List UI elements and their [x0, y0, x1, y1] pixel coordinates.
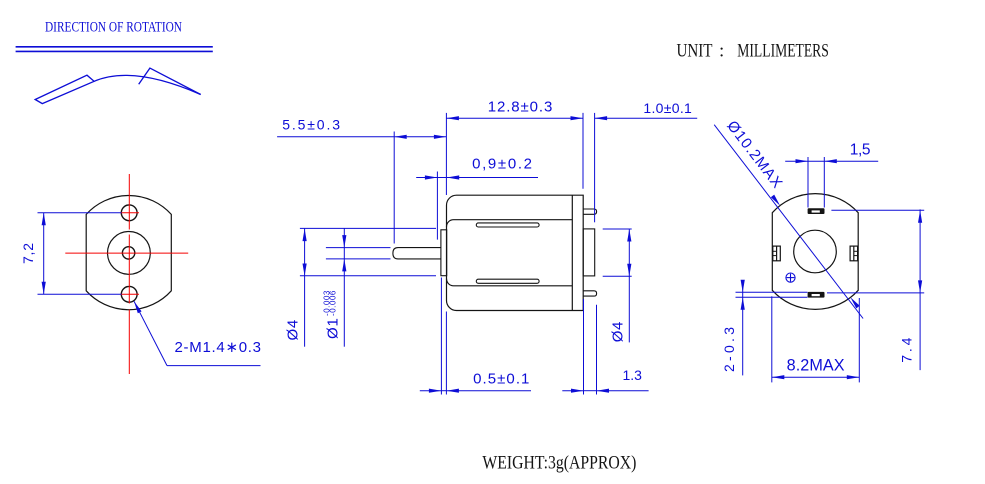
rotation direction curved double arrow — [35, 68, 201, 104]
svg-text:12.8±0.3: 12.8±0.3 — [488, 98, 553, 115]
front view horizontal centerline (red) — [65, 252, 188, 254]
dimension 1.3 (pin length) — [562, 299, 648, 395]
svg-text:UNIT: UNIT — [677, 40, 713, 61]
dimension Ø4 (cap diameter, right) — [603, 229, 632, 342]
svg-text:Ø4: Ø4 — [610, 322, 627, 343]
svg-text:7.4: 7.4 — [899, 337, 915, 362]
dimension 1.0±0.1 (cap protrusion) — [595, 100, 698, 222]
dimension 8.2MAX (body width) — [772, 296, 860, 382]
front view bottom mounting hole — [121, 286, 137, 302]
svg-text:2-0.3: 2-0.3 — [721, 327, 737, 372]
leader 2-M1.4*0.3 (tapped holes) — [134, 301, 261, 365]
rear view bottom terminal — [808, 292, 825, 298]
side view rear cap — [583, 229, 595, 276]
dimension 1,5 (terminal width) — [785, 142, 878, 208]
front view vertical centerline (red) — [128, 174, 130, 374]
front view shaft circle — [122, 247, 134, 259]
svg-text::: : — [719, 40, 724, 61]
svg-text:DIRECTION OF ROTATION: DIRECTION OF ROTATION — [45, 20, 182, 36]
dimension Ø1 -0.003/-0.006 (shaft diameter) — [323, 228, 391, 347]
rear view top terminal — [808, 208, 825, 214]
svg-text:7,2: 7,2 — [20, 243, 36, 264]
front view motor body outline — [86, 195, 171, 309]
title double underline — [16, 47, 213, 52]
front view top mounting hole — [121, 205, 137, 221]
dimension Ø4 (boss diameter, left) — [285, 228, 437, 346]
dimension 0.5±0.1 (boss width) — [420, 278, 531, 395]
rear view left side tab — [773, 246, 781, 261]
dimension 7,2 (hole spacing) — [20, 213, 121, 294]
side view bottom terminal pin — [583, 291, 596, 296]
side view bottom vent slot — [476, 279, 539, 283]
dimension Ø10.2MAX (diagonal leader) — [714, 118, 863, 319]
front view bearing boss circle — [107, 232, 150, 275]
svg-text:1.0±0.1: 1.0±0.1 — [643, 100, 692, 116]
svg-text:0.5±0.1: 0.5±0.1 — [473, 370, 529, 387]
note: UNIT MILLIMETERS — [677, 40, 829, 61]
svg-text:Ø4: Ø4 — [285, 320, 302, 341]
dimension 5.5±0.3 (shaft length) — [277, 117, 446, 244]
side view end cap joint line — [571, 195, 573, 310]
svg-text:2-M1.4∗0.3: 2-M1.4∗0.3 — [175, 339, 262, 356]
svg-text:MILLIMETERS: MILLIMETERS — [737, 40, 829, 61]
rear view motor body outline — [772, 194, 858, 310]
dimension 12.8±0.3 (body length) — [446, 98, 583, 195]
svg-text:WEIGHT:3g(APPROX): WEIGHT:3g(APPROX) — [482, 453, 636, 473]
svg-text:1,5: 1,5 — [850, 142, 871, 159]
title: DIRECTION OF ROTATION — [45, 20, 182, 36]
side view top vent slot — [476, 223, 539, 227]
note: WEIGHT 3g APPROX — [482, 453, 636, 473]
dimension 2-0.3 (terminal thickness) — [721, 280, 808, 376]
svg-text:Ø1: Ø1 — [325, 318, 342, 339]
svg-text:-0.006: -0.006 — [329, 290, 338, 316]
svg-text:1.3: 1.3 — [623, 367, 643, 383]
svg-text:8.2MAX: 8.2MAX — [787, 356, 845, 374]
side view shaft — [393, 248, 441, 259]
rear view commutator opening circle — [794, 230, 837, 273]
side view middle band — [447, 220, 573, 286]
red tick at bottom hole — [121, 293, 140, 295]
svg-text:5.5±0.3: 5.5±0.3 — [282, 117, 340, 133]
side view bearing boss — [441, 230, 447, 276]
side view top terminal pin — [583, 209, 596, 214]
dimension 7.4 (right) — [827, 209, 924, 370]
rear view right side tab — [850, 246, 858, 261]
dimension 0,9±0.2 — [416, 156, 538, 240]
red tick at top hole — [121, 212, 140, 214]
side view motor body outline — [447, 195, 584, 310]
rear view polarity mark (circled plus) — [786, 273, 795, 282]
